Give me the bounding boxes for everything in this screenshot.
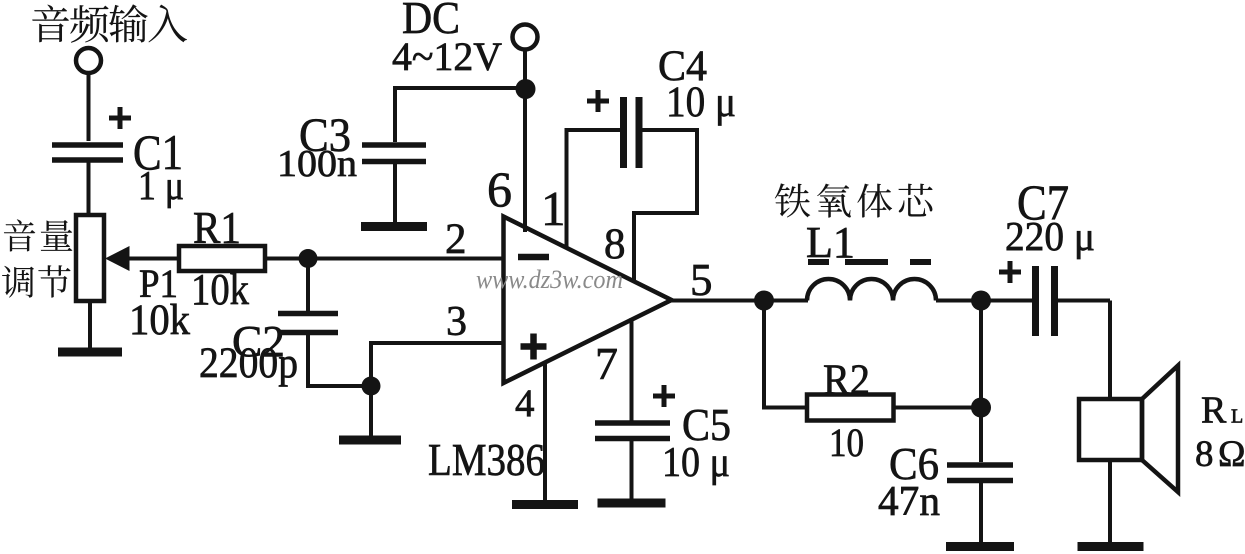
svg-text:10 μ: 10 μ	[666, 79, 736, 126]
ferrite core dashed line	[808, 259, 931, 265]
label C5	[682, 399, 731, 450]
label R1 value 10k	[191, 265, 249, 314]
op-amp U1 LM386 triangle	[504, 217, 672, 384]
svg-text:1: 1	[541, 181, 566, 236]
svg-text:220 μ: 220 μ	[1005, 213, 1095, 259]
label pin 2	[445, 216, 467, 263]
resistor R1 body	[179, 246, 265, 271]
svg-text:3: 3	[446, 299, 467, 345]
wire node to L1	[762, 299, 808, 303]
ground (C5)	[598, 499, 666, 508]
svg-text:R: R	[1201, 390, 1227, 432]
label C2	[232, 317, 285, 366]
wire R1 to op-amp pin 2	[265, 257, 503, 261]
wire L1 to right node	[936, 299, 981, 303]
label DC	[402, 0, 460, 43]
wire C1 to potentiometer P1	[87, 162, 91, 216]
label pin 3	[446, 299, 467, 345]
label P1	[139, 261, 178, 306]
label C1	[133, 124, 183, 180]
capacitor C5 polarity +	[653, 385, 675, 407]
label C3 value 100n	[277, 143, 357, 185]
svg-text:LM386: LM386	[428, 434, 545, 485]
svg-text:4: 4	[515, 382, 535, 425]
svg-text:R1: R1	[193, 202, 241, 253]
speaker RL horn	[1142, 366, 1178, 493]
capacitor C6	[947, 465, 1013, 481]
svg-text:Ω: Ω	[1218, 434, 1245, 475]
wire C4 to pin 8	[634, 128, 699, 282]
wire R2 to right node	[894, 406, 982, 410]
label C5 value 10 μ	[662, 440, 730, 486]
ground (C6)	[946, 542, 1014, 551]
node junction supply	[516, 79, 536, 99]
svg-text:8: 8	[1195, 434, 1214, 475]
label P1 value 10k	[129, 297, 190, 344]
label R1	[193, 202, 241, 253]
label RL value 8 Ω	[1195, 434, 1245, 475]
inductor L1	[807, 279, 936, 301]
svg-text:100n: 100n	[277, 143, 357, 185]
label C7 value 220 μ	[1005, 213, 1095, 259]
wire C7 to speaker	[1058, 301, 1110, 401]
ground (pin 3)	[339, 436, 401, 445]
label C1 value 1 μ	[138, 162, 184, 208]
label C7	[1017, 174, 1069, 230]
wire P1 to ground	[88, 301, 92, 350]
label C6	[889, 438, 939, 489]
wire op-amp pin 6 (V+)	[523, 89, 527, 232]
wire op-amp pin 4 to ground	[543, 364, 547, 502]
svg-text:47n: 47n	[878, 479, 940, 525]
wire op-amp pin 5 output	[669, 299, 764, 303]
node junction R2/C6	[971, 398, 991, 418]
wire C5 to ground	[630, 440, 634, 500]
resistor R2 body	[807, 395, 894, 421]
capacitor C7	[1036, 266, 1055, 336]
svg-text:www.dz3w.com: www.dz3w.com	[476, 265, 623, 294]
wire DC terminal down	[523, 50, 527, 90]
wire op-amp pin 3	[369, 341, 503, 345]
svg-text:2200p: 2200p	[199, 340, 298, 387]
ground (C3)	[361, 222, 427, 231]
op-amp non-inverting input plus sign	[521, 334, 547, 360]
capacitor C2	[278, 314, 338, 333]
potentiometer P1 wiper arrow	[105, 246, 179, 271]
watermark www.dz3w.com	[476, 265, 623, 294]
label pin 6	[487, 161, 512, 217]
capacitor C5	[595, 423, 670, 439]
node junction pin5/L1/R2	[754, 291, 774, 311]
capacitor C1	[52, 145, 123, 160]
svg-text:10 μ: 10 μ	[662, 440, 730, 486]
wire supply rail to C3	[393, 86, 525, 90]
potentiometer P1 body	[76, 215, 104, 301]
wire right rail down to C6	[979, 301, 983, 463]
label C2 value 2200p	[199, 340, 298, 387]
label C6 value 47n	[878, 479, 940, 525]
wire speaker to ground	[1108, 460, 1112, 545]
wire C3 to ground	[393, 163, 397, 224]
capacitor C3	[362, 145, 426, 162]
label RL	[1201, 390, 1243, 432]
label C4	[658, 43, 707, 90]
op-amp inverting input minus sign	[518, 254, 549, 261]
wire terminal to C1	[87, 74, 91, 142]
label R2	[823, 357, 870, 404]
label pin 1	[541, 181, 566, 236]
label 调节 (adjust)	[2, 265, 71, 297]
svg-text:L: L	[1231, 406, 1243, 428]
svg-text:8: 8	[604, 221, 626, 268]
label L1	[806, 218, 855, 267]
node junction R1/C2	[299, 249, 318, 268]
wire C3 top	[393, 88, 397, 142]
wire node to C7	[981, 299, 1032, 303]
svg-text:6: 6	[487, 161, 512, 217]
wire op-amp pin 7	[630, 318, 634, 422]
node junction L1/C7/C6	[971, 291, 991, 311]
svg-text:7: 7	[595, 338, 618, 389]
label 音频输入 (audio input)	[32, 4, 187, 42]
ground (pin 4)	[512, 500, 578, 509]
capacitor C4	[624, 97, 640, 168]
label C3	[299, 109, 351, 162]
ground (P1)	[58, 348, 122, 357]
wire junction to C2	[306, 259, 310, 312]
capacitor C7 polarity +	[999, 261, 1021, 283]
wire C2 to pin-3 node	[306, 334, 371, 386]
label pin 7	[595, 338, 618, 389]
svg-text:4~12V: 4~12V	[392, 34, 502, 79]
wire op-amp pin 1 riser	[565, 130, 569, 247]
label U1 LM386	[428, 434, 545, 485]
DC input terminal	[513, 25, 538, 50]
svg-text:10k: 10k	[129, 297, 190, 344]
ground (speaker)	[1078, 542, 1144, 551]
wire R2 branch left	[762, 301, 807, 408]
wire pin1 to C4	[565, 128, 621, 132]
speaker RL body	[1079, 399, 1142, 460]
label pin 5	[690, 255, 713, 305]
input terminal J1	[76, 48, 101, 73]
capacitor C4 polarity +	[587, 90, 609, 112]
capacitor C1 polarity +	[109, 107, 131, 129]
wire C6 to ground	[979, 483, 983, 545]
label R2 value 10	[829, 420, 864, 465]
label C4 value 10 μ	[666, 79, 736, 126]
svg-text:10k: 10k	[191, 265, 249, 314]
label 音量 (volume)	[4, 219, 72, 251]
svg-text:10: 10	[829, 420, 864, 465]
label pin 4	[515, 382, 535, 425]
svg-text:5: 5	[690, 255, 713, 305]
label pin 8	[604, 221, 626, 268]
node junction C2/pin3/ground	[362, 377, 381, 396]
label 4~12V	[392, 34, 502, 79]
label 铁氧体芯 (ferrite core)	[775, 183, 933, 217]
svg-text:1 μ: 1 μ	[138, 162, 184, 208]
wire pin-3 riser	[369, 343, 373, 436]
svg-text:R2: R2	[823, 357, 870, 404]
svg-text:2: 2	[445, 216, 467, 263]
